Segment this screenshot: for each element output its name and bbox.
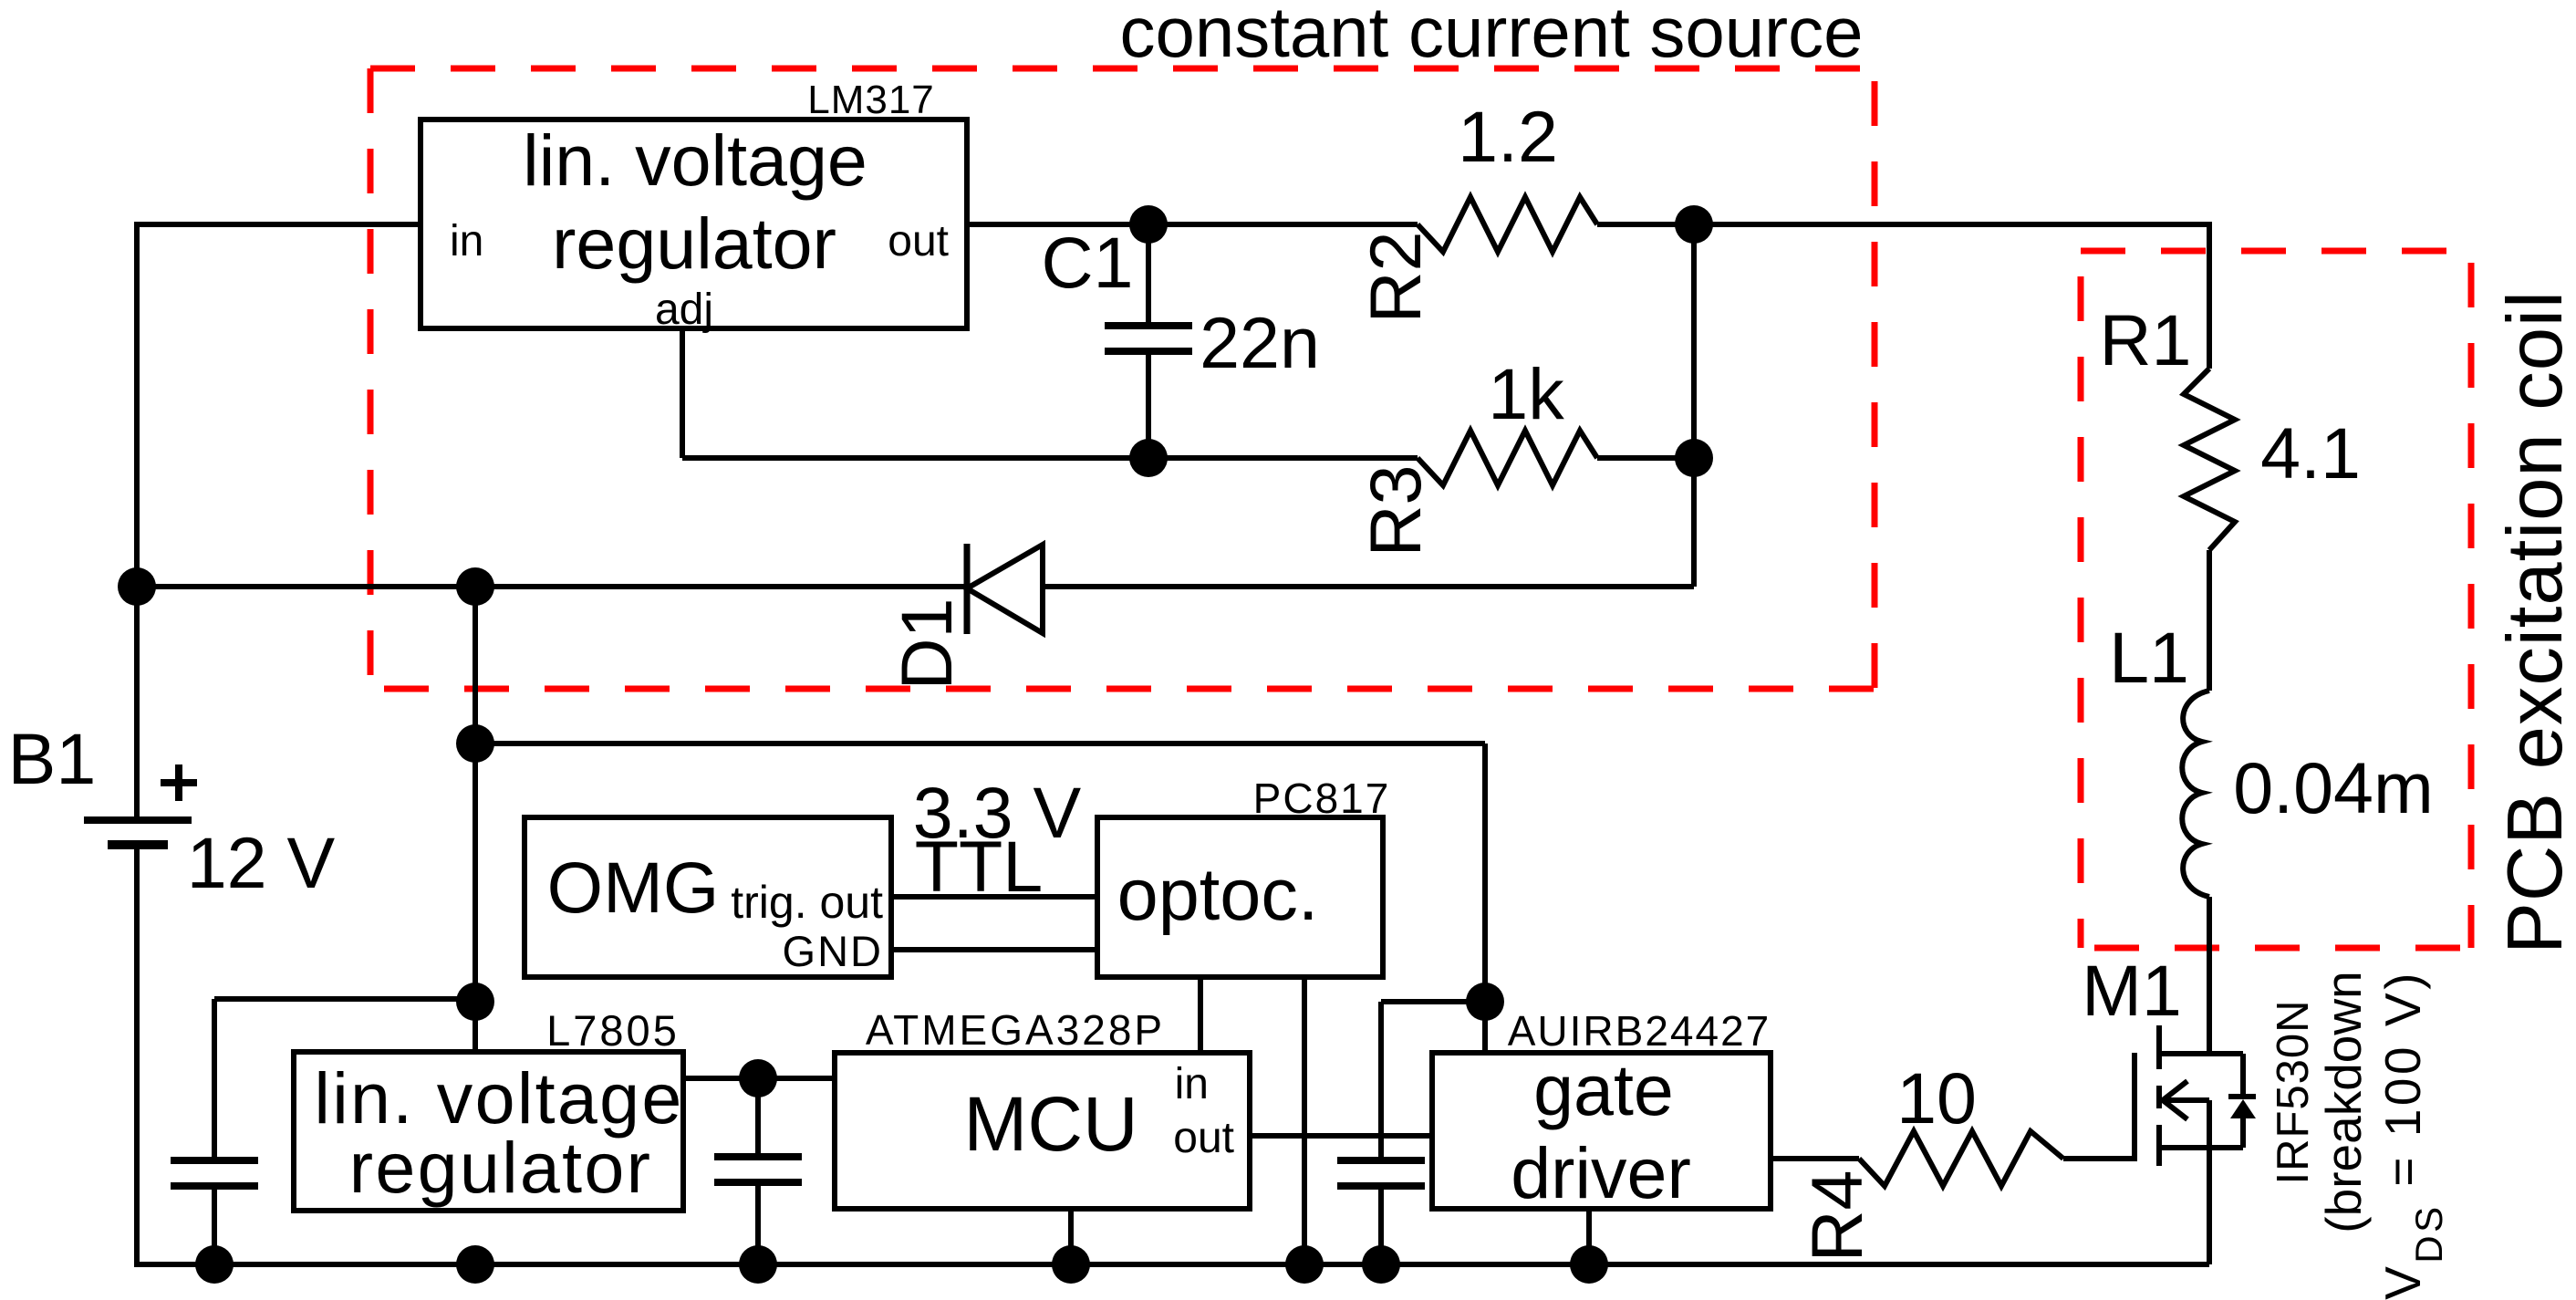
wire: out wire LM317 to R2 [967,222,1418,227]
label: R3 [1355,465,1436,557]
battery B1 plus sign [161,764,197,801]
wire: L7805 out to MCU [683,1076,835,1081]
wire: R4 to M1 gate [2063,1053,2135,1159]
svg-text:4.1: 4.1 [2260,412,2361,494]
junction: R3 right node [1675,439,1713,477]
junction: ground / MCU [1052,1245,1090,1284]
svg-text:optoc.: optoc. [1117,854,1319,936]
svg-text:10: 10 [1896,1057,1977,1139]
wire: D1 rail left part [137,584,967,589]
svg-text:1.2: 1.2 [1458,96,1558,177]
node label: PCB excitation coil [2492,290,2576,954]
svg-text:R1: R1 [2100,299,2192,380]
svg-text:regulator: regulator [349,1127,653,1208]
svg-text:12 V: 12 V [187,822,336,903]
wire: R1 to L1 [2207,550,2212,691]
svg-text:adj: adj [655,286,713,334]
svg-text:R4: R4 [1796,1170,1877,1263]
svg-text:MCU: MCU [963,1081,1137,1167]
svg-text:B1: B1 [8,718,97,799]
wire: mid cap stubs [755,1078,761,1157]
junction: middle vertical / left cap branch [456,983,494,1021]
svg-text:C1: C1 [1042,222,1134,303]
wire: adj pin down [680,328,685,458]
svg-text:22n: 22n [1200,302,1320,383]
svg-text:R3: R3 [1355,465,1436,557]
svg-text:R2: R2 [1355,232,1436,324]
svg-text:PC817: PC817 [1253,775,1391,822]
svg-text:gate: gate [1533,1049,1674,1130]
svg-text:regulator: regulator [552,203,836,284]
wire: optoc pin to MCU in [1198,977,1203,1053]
junction: L7805 out / mid cap [739,1059,777,1097]
op box: LM317 regulator [421,120,967,328]
svg-text:0.04m: 0.04m [2233,747,2434,828]
inductor L1 [2182,691,2209,897]
wire: gate driver bottom pin [1586,1209,1592,1264]
svg-text:D1: D1 [886,598,967,691]
box: optocoupler PC817 [1097,817,1383,977]
box: gate driver AUIRB24427 [1432,1053,1771,1209]
battery B1 [84,820,192,845]
wire: MCU bottom pin [1068,1209,1074,1264]
junction: LM317 out / C1 top [1129,205,1168,244]
constant current source dashed box [370,68,1875,689]
svg-text:TTL: TTL [915,826,1043,907]
channel dashes [2156,1025,2162,1069]
junction: adj wire / C1 bottom [1129,439,1168,477]
wire: left cap branch [214,996,475,1002]
capacitor C1 [1105,326,1192,351]
diode D1 [964,544,971,634]
wire: bottom ground rail [134,1262,2209,1267]
resistor R4 [1859,1131,2063,1186]
junction: ground / gate-driver cap [1362,1245,1400,1284]
junction: ground / L7805 [456,1245,494,1284]
wire: OMG GND to optoc [891,947,1097,952]
body diode triangle [2230,1099,2256,1118]
capacitor right (gate driver cap) [1337,1160,1425,1186]
wire: right vertical R2/R3/D1 [1691,224,1697,587]
wire: OMG trig out to optoc [891,894,1097,900]
junction: right vertical / gate-driver cap branch [1466,983,1504,1021]
junction: ground / gate driver [1570,1245,1608,1284]
svg-text:out: out [1173,1114,1234,1162]
wire: middle vertical [473,587,478,1052]
svg-text:LM317: LM317 [807,78,935,122]
PCB excitation coil dashed box [2081,251,2471,948]
junction: D1 rail / middle vertical [456,567,494,606]
svg-text:lin. voltage: lin. voltage [523,120,867,201]
wire: in wire from left rail to LM317 [137,222,421,227]
box: OMG [525,817,891,977]
resistor R1 [2184,369,2235,550]
arrow head [2163,1081,2187,1119]
source tap [2159,1145,2243,1150]
svg-text:M1: M1 [2082,950,2182,1031]
value label: M1 VDS = 100 V) [2374,970,2450,1300]
wire: D1 rail right part [1043,584,1694,589]
wire: gate-driver supply wire [475,741,1485,746]
body line [2163,1097,2209,1103]
wire: optoc pin to ground [1302,977,1307,1264]
capacitor mid (5V cap) [714,1157,802,1182]
svg-text:L7805: L7805 [546,1006,680,1055]
wire: right vertical to gate driver [1482,744,1488,1053]
resistor R3 [1418,431,1597,485]
svg-text:GND: GND [783,927,883,975]
drain tap [2159,1051,2243,1056]
wire: R2 right to top-right corner, down to R1 [1597,224,2209,369]
svg-text:in: in [1175,1060,1209,1108]
svg-text:driver: driver [1511,1132,1691,1213]
wire: cap branch to right vertical [1381,999,1485,1004]
svg-text:OMG: OMG [547,847,720,928]
wire: right cap stubs [1378,1002,1384,1160]
wire: lower wire adj to R3 [682,455,1418,461]
svg-text:IRF530N: IRF530N [2269,999,2318,1184]
svg-text:in: in [450,217,483,265]
box: MCU ATMEGA328P [835,1053,1250,1209]
transistor M1 (MOSFET IRF530N) [2159,1025,2256,1264]
capacitor left (L7805 input cap) [171,1160,258,1186]
wire: L1 to MOSFET drain [2207,897,2212,1055]
box: L7805 regulator [294,1052,683,1211]
source vertical down [2207,1100,2212,1264]
wire: left cap stubs [212,999,217,1164]
wire: gate driver out to R4 [1771,1156,1859,1161]
junction: ground / optocoupler [1285,1245,1324,1284]
component boxes [294,120,1771,1211]
svg-text:trig. out: trig. out [731,877,883,928]
svg-text:ATMEGA328P: ATMEGA328P [866,1006,1165,1054]
svg-text:constant current source: constant current source [1119,0,1863,72]
wire: R3 right lead to junction [1597,455,1694,461]
junction: left rail / D1 rail [118,567,156,606]
junction: R2 right node [1675,205,1713,244]
label: D1 [886,598,967,691]
svg-text:L1: L1 [2109,617,2189,698]
value label: M1 IRF530N [2269,999,2318,1184]
junction: ground / mid cap [739,1245,777,1284]
body diode bar [2228,1094,2256,1099]
label: R4 [1796,1170,1877,1263]
junction: middle vertical / supply wire [456,724,494,763]
wire: left rail upper [134,222,140,820]
body diode verticals [2240,1054,2246,1095]
junction: ground / left cap [195,1245,234,1284]
resistor R2 [1418,197,1597,252]
wire: MCU out to gate driver [1250,1133,1432,1139]
svg-text:1k: 1k [1488,353,1564,434]
svg-text:AUIRB24427: AUIRB24427 [1508,1007,1771,1055]
wire: left rail lower (below battery) [134,846,140,1267]
value label: M1 (breakdown [2315,971,2372,1232]
svg-text:PCB excitation coil: PCB excitation coil [2492,290,2576,954]
svg-text:(breakdown: (breakdown [2315,971,2372,1232]
label: R2 [1355,232,1436,324]
svg-text:out: out [888,217,949,265]
